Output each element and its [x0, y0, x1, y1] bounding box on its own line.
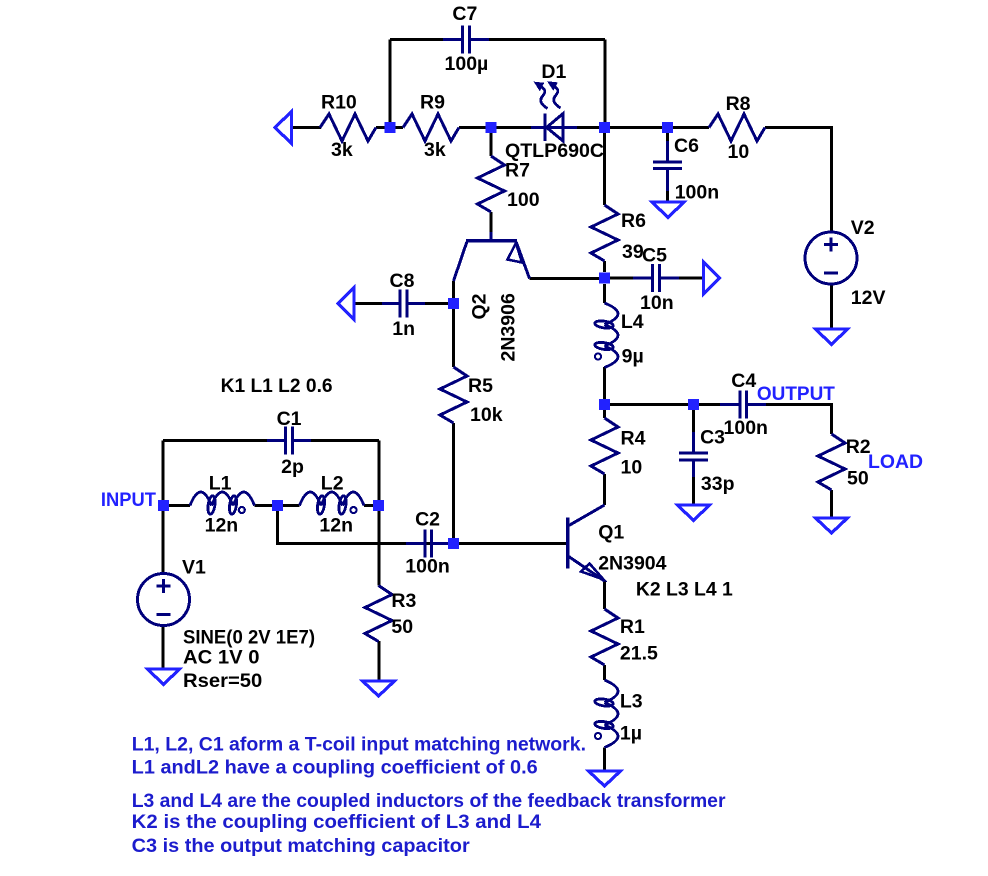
svg-text:Rser=50: Rser=50 — [183, 670, 262, 692]
svg-text:2p: 2p — [281, 456, 304, 478]
svg-text:L1, L2, C1 aform a T-coil inpu: L1, L2, C1 aform a T-coil input matching… — [132, 734, 586, 756]
svg-text:D1: D1 — [541, 61, 566, 83]
svg-text:C4: C4 — [731, 370, 756, 392]
svg-text:21.5: 21.5 — [620, 643, 658, 665]
svg-text:R10: R10 — [321, 92, 357, 114]
svg-text:L3: L3 — [620, 691, 643, 713]
svg-text:Q2: Q2 — [469, 293, 491, 319]
svg-text:OUTPUT: OUTPUT — [757, 383, 835, 405]
svg-text:R6: R6 — [621, 210, 646, 232]
svg-text:LOAD: LOAD — [868, 451, 923, 473]
svg-text:L4: L4 — [621, 311, 644, 333]
svg-text:R3: R3 — [391, 590, 416, 612]
svg-text:50: 50 — [391, 616, 413, 638]
svg-text:AC 1V 0: AC 1V 0 — [183, 647, 260, 669]
svg-text:12V: 12V — [851, 287, 886, 309]
svg-text:C2: C2 — [415, 509, 440, 531]
svg-text:100n: 100n — [405, 556, 449, 578]
svg-text:R9: R9 — [420, 92, 445, 114]
svg-text:R8: R8 — [726, 93, 751, 115]
svg-text:C3 is the output matching capa: C3 is the output matching capacitor — [132, 835, 470, 857]
svg-text:C7: C7 — [452, 3, 477, 25]
svg-text:INPUT: INPUT — [101, 489, 156, 511]
svg-text:1µ: 1µ — [620, 723, 642, 745]
svg-text:10n: 10n — [640, 292, 674, 314]
svg-text:39: 39 — [622, 241, 644, 263]
svg-text:V2: V2 — [851, 217, 875, 239]
svg-text:L1 andL2 have a coupling coeff: L1 andL2 have a coupling coefficient of … — [132, 757, 538, 779]
svg-text:1n: 1n — [392, 318, 415, 340]
svg-text:L2: L2 — [321, 473, 344, 495]
svg-text:C5: C5 — [642, 245, 667, 267]
svg-text:100n: 100n — [675, 182, 719, 204]
svg-text:SINE(0 2V 1E7): SINE(0 2V 1E7) — [183, 627, 315, 649]
svg-text:33p: 33p — [701, 473, 735, 495]
svg-text:10: 10 — [728, 141, 750, 163]
svg-text:V1: V1 — [182, 557, 206, 579]
svg-text:10: 10 — [621, 457, 643, 479]
svg-text:C8: C8 — [390, 270, 415, 292]
svg-text:12n: 12n — [205, 515, 239, 537]
svg-text:3k: 3k — [424, 139, 446, 161]
svg-text:C6: C6 — [674, 135, 699, 157]
svg-text:R7: R7 — [505, 160, 530, 182]
svg-text:100µ: 100µ — [445, 53, 489, 75]
svg-text:10k: 10k — [470, 404, 503, 426]
svg-text:K2 L3 L4 1: K2 L3 L4 1 — [636, 579, 733, 601]
svg-text:C1: C1 — [277, 408, 302, 430]
svg-text:L3 and L4 are the coupled indu: L3 and L4 are the coupled inductors of t… — [132, 790, 726, 812]
svg-text:3k: 3k — [331, 139, 353, 161]
svg-text:9µ: 9µ — [622, 346, 644, 368]
svg-text:K1 L1 L2 0.6: K1 L1 L2 0.6 — [221, 375, 333, 397]
svg-text:R4: R4 — [621, 428, 646, 450]
svg-text:2N3906: 2N3906 — [498, 293, 520, 361]
svg-text:L1: L1 — [209, 473, 232, 495]
svg-text:Q1: Q1 — [598, 522, 624, 544]
svg-text:100: 100 — [507, 189, 540, 211]
svg-text:50: 50 — [847, 468, 869, 490]
svg-text:C3: C3 — [700, 427, 725, 449]
svg-text:12n: 12n — [319, 515, 353, 537]
svg-text:2N3904: 2N3904 — [598, 553, 666, 575]
svg-text:R5: R5 — [468, 375, 493, 397]
svg-text:K2 is the coupling coefficient: K2 is the coupling coefficient of L3 and… — [132, 811, 541, 833]
svg-text:100n: 100n — [724, 417, 768, 439]
svg-text:R1: R1 — [620, 616, 645, 638]
